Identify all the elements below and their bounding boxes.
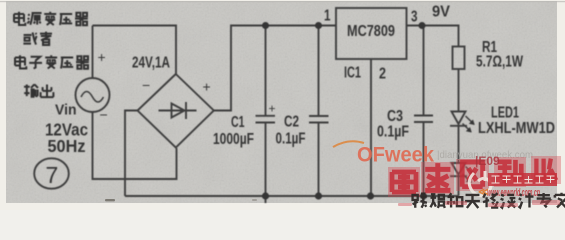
C1 plus — [269, 102, 276, 116]
circled figure number 7 — [34, 158, 69, 188]
svg-text:Vin: Vin — [55, 102, 77, 119]
svg-text:C3: C3 — [387, 108, 403, 125]
svg-text:LED1: LED1 — [491, 105, 519, 122]
wire: AC source top to top rail — [92, 26, 94, 79]
svg-text:24V,1A: 24V,1A — [132, 55, 170, 72]
label LXHL-MW1D — [478, 120, 555, 137]
svg-text:LXHL-MW1D: LXHL-MW1D — [478, 120, 555, 137]
label C3 — [387, 108, 403, 125]
bridge rectifier diamond — [138, 74, 214, 148]
red char 5 — [536, 159, 556, 181]
label IC1 — [344, 65, 361, 82]
junction C3 9V rail — [419, 22, 426, 29]
red char 4 — [498, 160, 521, 183]
watermark orange chevrons — [478, 187, 488, 198]
AC minus — [100, 107, 108, 123]
svg-text:C2: C2 — [284, 114, 299, 131]
svg-text:2: 2 — [379, 66, 386, 83]
wire: C1 vertical — [265, 26, 267, 204]
label Vin — [55, 102, 77, 119]
IC IC1 MC7809 box — [336, 8, 407, 59]
svg-text:3: 3 — [411, 9, 418, 26]
text shu-chu line4 — [24, 84, 53, 97]
bridge inner diode — [159, 102, 197, 119]
capacitor C3 plates — [414, 116, 433, 123]
svg-text:7: 7 — [46, 162, 59, 188]
label 50Hz — [48, 136, 86, 156]
svg-text:+: + — [98, 49, 106, 65]
label LED1 — [491, 105, 519, 122]
text dian-zi-bian-ya-qi line3 — [15, 55, 89, 68]
wire: LED2 to ground rail — [458, 176, 460, 196]
junction C2 ground rail — [315, 192, 322, 199]
svg-text:0.1µF: 0.1µF — [276, 131, 306, 148]
bottom dark watermark: she-pin-he-tian-xian-she-ji-zhuan-jia — [413, 193, 565, 208]
Chinese annotation block (simplified glyph strokes) — [14, 12, 89, 97]
watermark OFweek — [357, 144, 434, 167]
LED LED2 — [450, 163, 475, 183]
svg-text:5.7Ω,1W: 5.7Ω,1W — [476, 54, 524, 71]
wire: AC source bottom down — [93, 112, 177, 180]
watermark eeworld url — [487, 187, 540, 199]
label 9V — [432, 4, 450, 21]
svg-text:+: + — [269, 102, 276, 116]
big red watermark glyphs — [388, 156, 561, 197]
stray scan mark bottom left — [105, 199, 115, 201]
wire: bottom ground rail — [125, 195, 459, 197]
label R1 — [482, 39, 497, 56]
wire: MC7809 output rail — [407, 26, 459, 47]
svg-text:50Hz: 50Hz — [48, 136, 86, 156]
text dian-yuan-bian-ya-qi line1 — [14, 12, 88, 25]
watermark red box eeworld — [488, 173, 557, 186]
text huo-zhe line2 — [23, 32, 52, 45]
pin 2 — [379, 66, 386, 83]
wire: R1 to LED1 — [458, 69, 460, 112]
svg-text:|E09: |E09 — [475, 154, 500, 168]
figure number 7 — [46, 162, 59, 188]
watermark white logo swirl — [469, 171, 491, 196]
label 5.7ohm 0.1W — [476, 54, 524, 71]
wire: pin2 ground — [370, 59, 372, 196]
AC source Vin — [76, 78, 110, 112]
red char 1 — [392, 172, 416, 192]
bridge minus — [142, 77, 150, 93]
wire: LED1 to LED2 — [458, 126, 460, 163]
pin 1 — [324, 8, 331, 25]
bridge plus — [203, 79, 211, 95]
label C1 — [231, 114, 245, 131]
junction pin2 ground rail — [367, 192, 374, 199]
svg-text:9V: 9V — [432, 4, 450, 21]
red char 2 — [425, 163, 450, 190]
wire: C3 vertical — [423, 26, 425, 197]
label 12Vac — [45, 120, 88, 140]
svg-text:−: − — [100, 107, 108, 123]
AC plus — [98, 49, 106, 65]
watermark orange swoosh — [333, 141, 364, 147]
label 1000uF — [213, 131, 254, 148]
label C2 — [284, 114, 299, 131]
label 0.1uF C3 — [377, 124, 409, 141]
resistor R1 body — [453, 47, 465, 70]
svg-text:1: 1 — [324, 8, 331, 25]
label 24V,1A — [132, 55, 170, 72]
svg-text:1000µF: 1000µF — [213, 131, 254, 148]
watermark E09 — [475, 154, 500, 168]
svg-text:−: − — [142, 77, 150, 93]
LED LED1 — [450, 112, 475, 133]
red char 3 — [460, 162, 485, 187]
capacitor C2 plates — [309, 116, 329, 123]
capacitor C1 plates — [256, 116, 276, 123]
pin 3 — [411, 9, 418, 26]
junction C2 top rail — [315, 22, 322, 29]
junction C3 ground rail — [420, 193, 427, 200]
junction C1 ground rail — [262, 192, 269, 199]
wire: bridge left vertex to left rail — [125, 111, 138, 197]
svg-text:C1: C1 — [231, 114, 245, 131]
label 0.1uF C2 — [276, 131, 306, 148]
svg-text:IC1: IC1 — [344, 65, 361, 82]
watermark dianyuan.ofweek.com — [437, 149, 533, 161]
svg-text:+: + — [203, 79, 211, 95]
top page edge line — [0, 1, 565, 2]
junction C1 top rail — [262, 22, 269, 29]
label MC7809 — [347, 23, 395, 40]
wire: bridge right vertex up to rail — [214, 26, 336, 111]
svg-text:MC7809: MC7809 — [347, 23, 395, 40]
wire: C2 vertical — [318, 26, 320, 197]
watermark red ghost marks bottom edge — [398, 200, 560, 207]
svg-text:0.1µF: 0.1µF — [377, 124, 409, 141]
wire: top-left rail to bridge top — [93, 26, 177, 75]
